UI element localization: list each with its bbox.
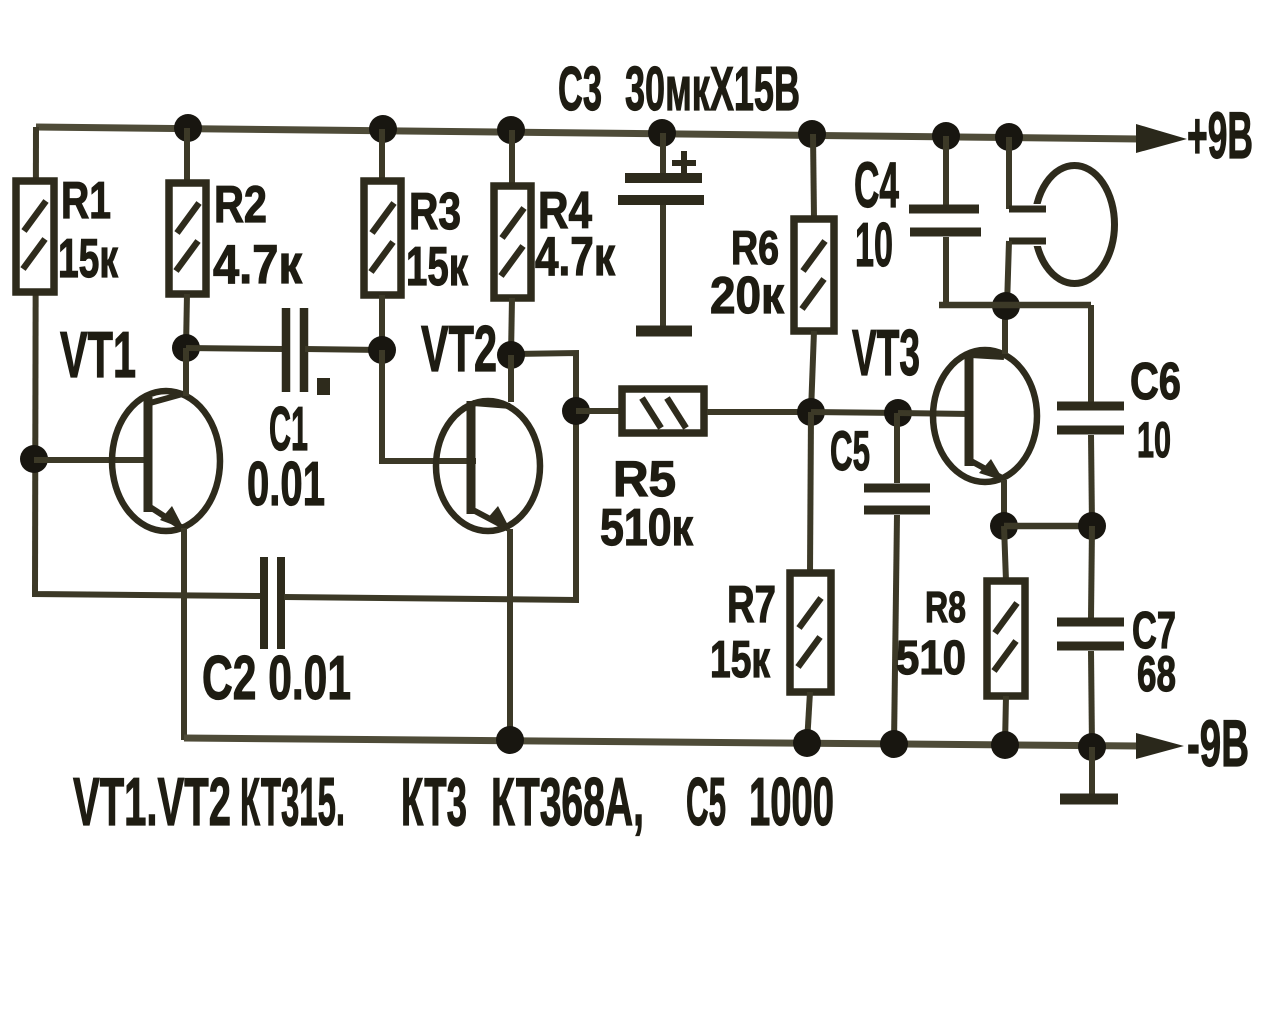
node VT3 base net / R6 R7 R5 junction [797, 398, 825, 426]
node VT2 base / C1 right [368, 336, 396, 364]
resistor R6 [794, 134, 834, 412]
label C6 value 10 [1137, 412, 1171, 468]
svg-text:R2: R2 [214, 176, 267, 234]
wire VT2 base lead [382, 350, 476, 461]
wire collector net horizontal [939, 302, 1091, 309]
node VT2 collector [497, 341, 525, 369]
svg-text:КТ315.: КТ315. [240, 764, 345, 840]
svg-text:КТ368А,: КТ368А, [491, 764, 644, 840]
node rail R2 [174, 114, 202, 142]
svg-text:R1: R1 [61, 172, 111, 230]
svg-text:C2 0.01: C2 0.01 [202, 644, 351, 713]
label +9В [1187, 98, 1253, 172]
svg-text:510к: 510к [600, 499, 694, 557]
arrow +9V [1136, 124, 1187, 153]
capacitor C5 [864, 413, 930, 744]
label VT3 [852, 316, 920, 389]
svg-text:КТ3: КТ3 [401, 764, 467, 840]
label C3 30мкХ15В [558, 55, 800, 124]
svg-text:-9В: -9В [1187, 706, 1249, 780]
wire VT1 collector [183, 348, 189, 396]
svg-text:15к: 15к [58, 227, 118, 289]
svg-text:1000: 1000 [749, 764, 834, 840]
svg-text:0.01: 0.01 [247, 450, 325, 519]
svg-text:68: 68 [1137, 646, 1176, 702]
label R6 value 20к [710, 267, 785, 325]
wire base net to C5 [811, 412, 898, 413]
wire C1 right segment [305, 349, 382, 350]
wire VT3 emitter [1001, 480, 1007, 526]
wire VT1 base lead [34, 457, 150, 463]
label C4 [854, 149, 899, 221]
label R5 [613, 451, 676, 507]
node bottom C7/ground [1078, 733, 1106, 761]
wire VT3 collector [1002, 306, 1008, 354]
label C1 [269, 395, 308, 464]
resistor R7 [790, 412, 831, 743]
label R1 [61, 172, 111, 230]
svg-text:С5: С5 [686, 764, 726, 840]
node rail R3 [369, 115, 397, 143]
capacitor C7 [1057, 526, 1124, 747]
label -9В [1187, 706, 1249, 780]
node VT3 collector net [992, 292, 1020, 320]
label R1 value 15к [58, 227, 118, 289]
label R5 value 510к [600, 499, 694, 557]
svg-text:15к: 15к [406, 235, 468, 297]
label R4 value 4.7к [535, 225, 615, 287]
node bottom R7 [793, 729, 821, 757]
wire bottom rail -9V [184, 738, 1139, 746]
resistor R5 [622, 389, 704, 433]
label C2 value [202, 644, 351, 713]
label C5 [830, 419, 870, 482]
node rail coil [995, 123, 1023, 151]
svg-text:10: 10 [1137, 412, 1171, 468]
wire base net to VT3 [898, 413, 971, 414]
wire VT2 collector [508, 355, 514, 402]
ground bar C3 [636, 326, 692, 337]
note text parts list [73, 764, 834, 840]
wire C2 right segment to VT2 collector [284, 353, 576, 600]
svg-text:VT1.VT2: VT1.VT2 [73, 764, 231, 840]
resistor R2 [169, 128, 206, 348]
resistor R8 [987, 526, 1025, 745]
svg-text:15к: 15к [710, 631, 771, 689]
label R3 [409, 183, 461, 241]
resistor R1 [16, 181, 54, 292]
svg-text:4.7к: 4.7к [535, 225, 615, 287]
arrow -9V [1136, 733, 1184, 759]
svg-text:VT2: VT2 [421, 312, 497, 385]
label VT1 [60, 318, 136, 391]
wire VT2 emitter down [507, 529, 513, 741]
resistor R4 [494, 130, 531, 355]
label R2 [214, 176, 267, 234]
wire emitter net horizontal [1004, 523, 1092, 530]
transistor VT3 [933, 350, 1037, 482]
label R8 [925, 583, 966, 632]
node bottom R8 [991, 731, 1019, 759]
svg-text:10: 10 [855, 211, 893, 280]
capacitor C6 [1057, 305, 1124, 526]
ground symbol bottom [1060, 747, 1118, 799]
wire R5 right lead [707, 409, 811, 415]
node VT3 emitter [990, 512, 1018, 540]
label R6 [731, 221, 779, 274]
svg-text:R7: R7 [727, 576, 776, 634]
node VT1 collector / C1 left [172, 334, 200, 362]
capacitor C3 electrolytic [618, 133, 704, 326]
wire C1 left segment [186, 348, 283, 349]
node rail R4 [497, 116, 525, 144]
transistor VT1 [112, 391, 220, 531]
node rail R6 [798, 120, 826, 148]
svg-text:20к: 20к [710, 267, 785, 325]
label VT2 [421, 312, 497, 385]
label R3 value 15к [406, 235, 468, 297]
wire top rail +9V [36, 127, 1140, 139]
label R7 [727, 576, 776, 634]
node bottom C5 [880, 730, 908, 758]
label R4 [538, 182, 592, 240]
resistor R3 [364, 129, 401, 350]
inductor coil L (loop with slot) [1007, 137, 1115, 306]
C3 plus sign [672, 151, 696, 175]
node bottom VT2 emitter [496, 726, 524, 754]
label R8 value 510 [896, 632, 966, 685]
node rail C3 [648, 119, 676, 147]
svg-text:510: 510 [896, 632, 966, 685]
label C7 [1132, 602, 1176, 660]
svg-text:VT3: VT3 [852, 316, 920, 389]
label R2 value 4.7к [213, 233, 302, 295]
capacitor C4 [909, 136, 981, 305]
svg-text:+9В: +9В [1187, 98, 1253, 172]
capacitor C2 [264, 557, 281, 649]
label C7 value 68 [1137, 646, 1176, 702]
wire left vertical (rail to VT1 base to C2 corner) [35, 127, 36, 592]
wire VT1 emitter down [181, 528, 187, 740]
wire C2 left segment (VT1 base net) [35, 589, 261, 596]
node C5 tap [884, 399, 912, 427]
svg-text:С5: С5 [830, 419, 870, 482]
label R7 value 15к [710, 631, 771, 689]
svg-text:R3: R3 [409, 183, 461, 241]
wire R5 left lead [576, 408, 619, 414]
node rail C4 [932, 122, 960, 150]
node VT1 base [20, 445, 48, 473]
label C4 value 10 [855, 211, 893, 280]
svg-text:4.7к: 4.7к [213, 233, 302, 295]
transistor VT2 [436, 401, 540, 531]
label C6 [1130, 353, 1181, 411]
svg-text:30мкХ15В: 30мкХ15В [625, 55, 800, 124]
capacitor C1 [286, 308, 304, 392]
node C6/C7 junction [1078, 512, 1106, 540]
node R5 left tap [562, 397, 590, 425]
svg-text:С3: С3 [558, 55, 602, 124]
svg-text:С6: С6 [1130, 353, 1181, 411]
svg-text:VT1: VT1 [60, 318, 136, 391]
svg-text:R8: R8 [925, 583, 966, 632]
label C1 value 0.01 [247, 450, 325, 519]
C1 selection asterisk [317, 378, 330, 395]
